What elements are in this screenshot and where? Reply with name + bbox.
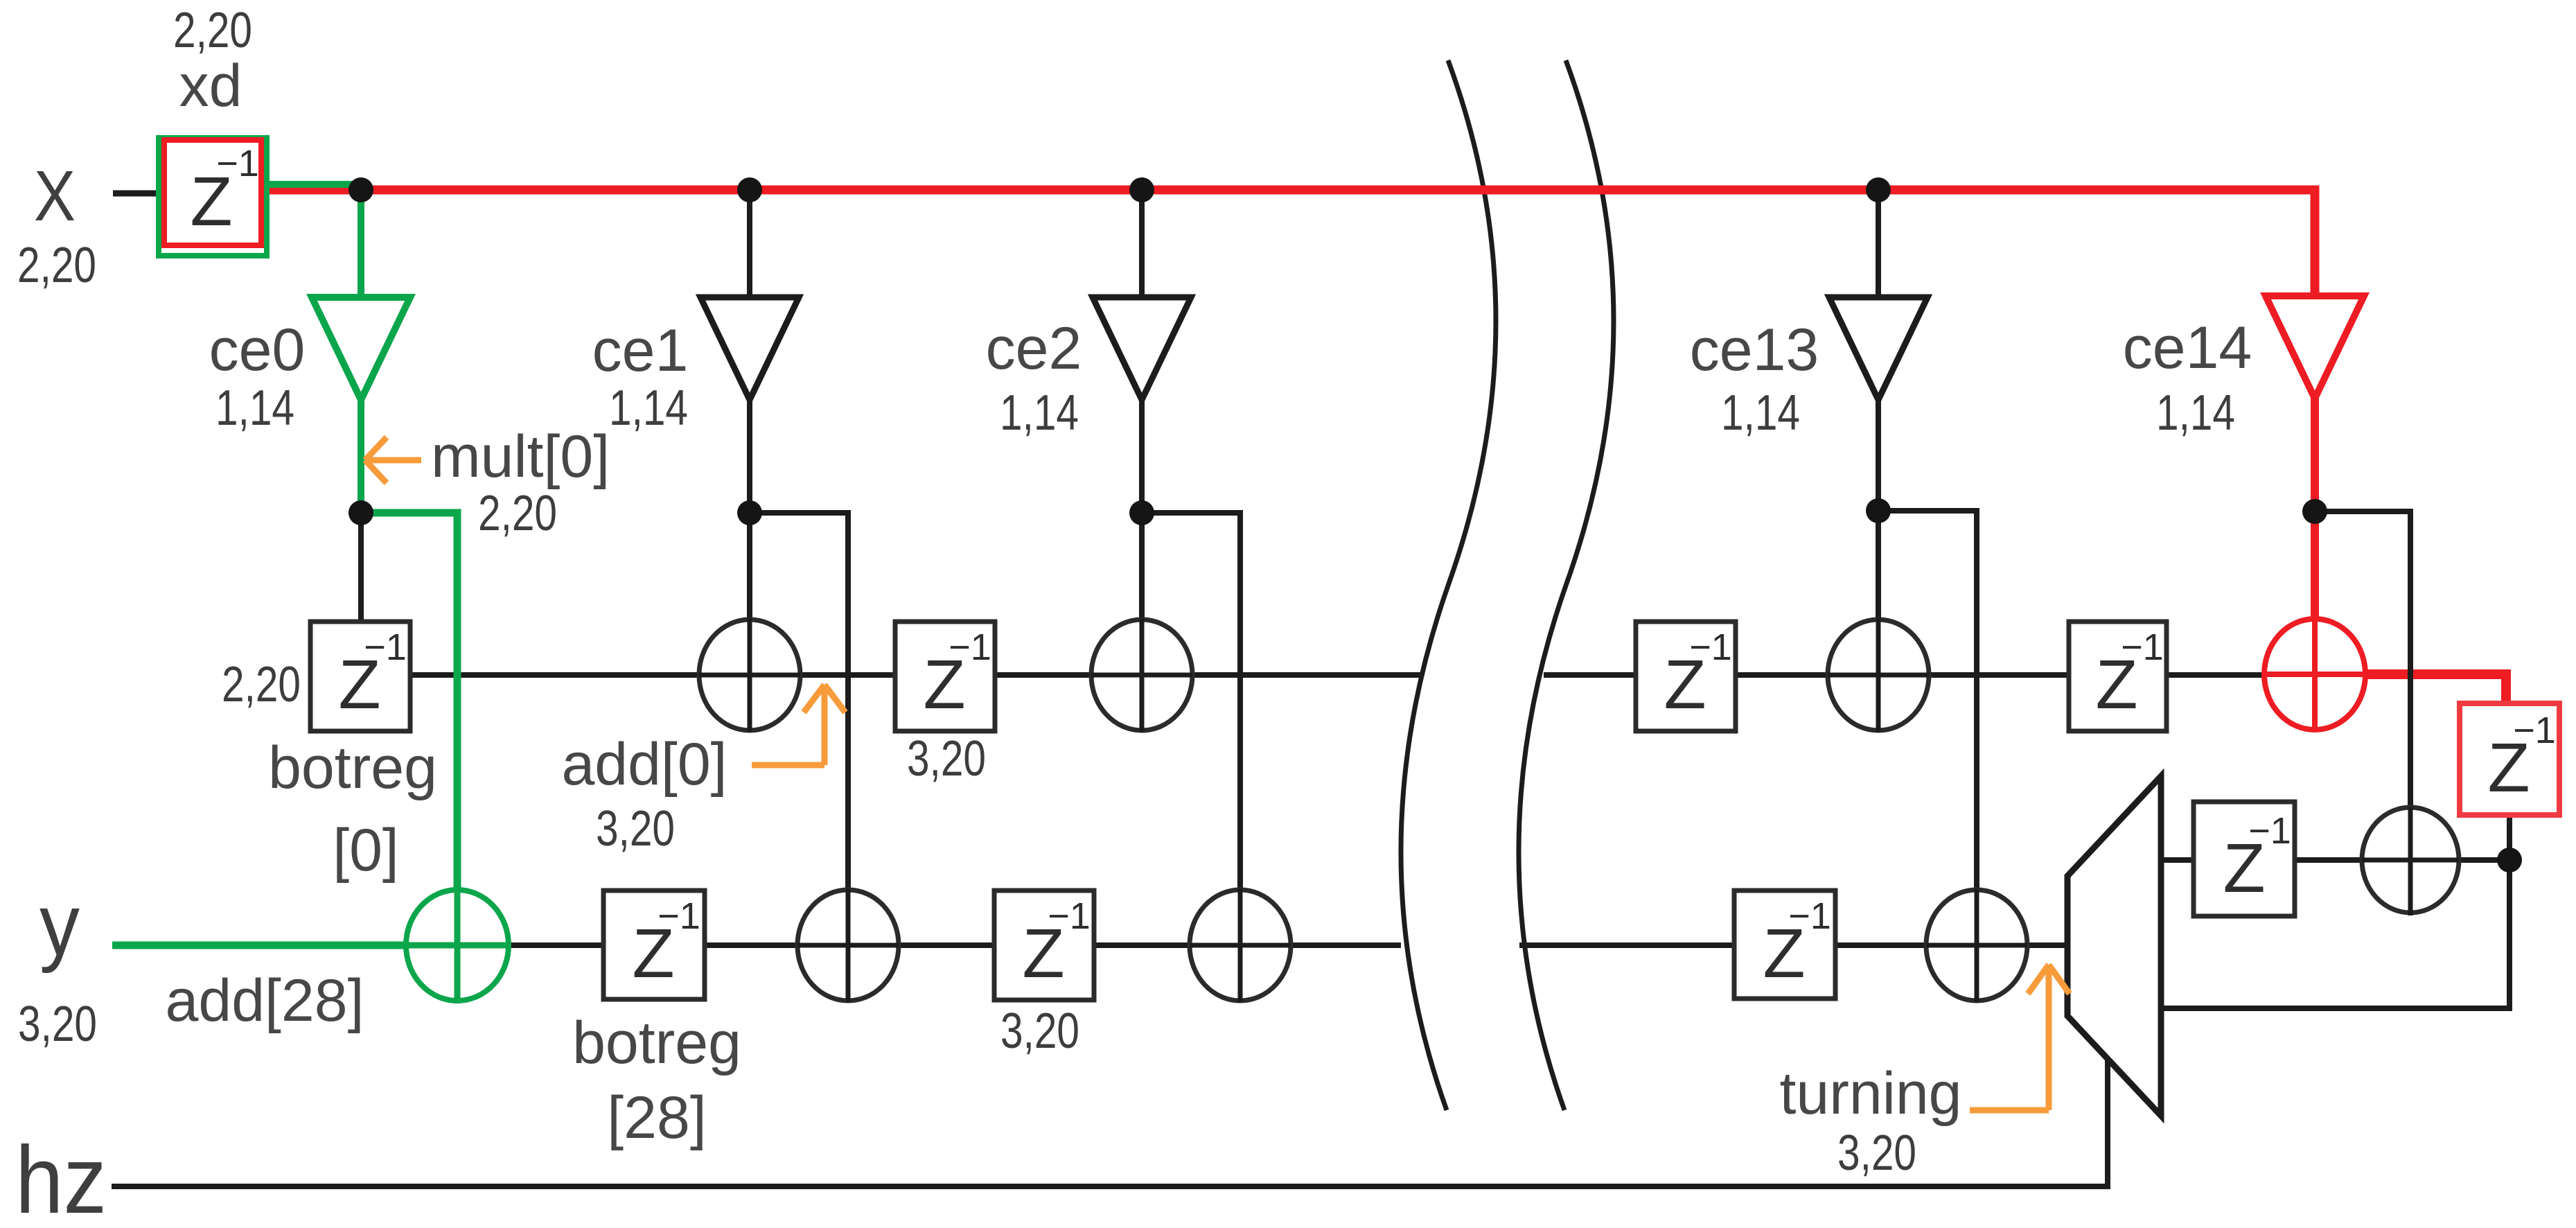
delay register botreg[28] <box>603 891 705 999</box>
delay register xd (red box) <box>164 140 261 245</box>
svg-text:2,20: 2,20 <box>222 657 301 712</box>
svg-text:botreg: botreg <box>268 735 437 801</box>
svg-text:−1: −1 <box>949 626 991 668</box>
adder bottom 3 <box>1926 890 2027 1001</box>
svg-text:ce2: ce2 <box>986 315 1082 382</box>
svg-text:−1: −1 <box>1788 895 1831 937</box>
wire subrow mux to node <box>2161 857 2509 863</box>
node ce2 split <box>1129 500 1154 525</box>
adder middle 3 (ce13) <box>1828 620 1929 730</box>
svg-text:2,20: 2,20 <box>17 238 96 293</box>
amplifier ce1 <box>700 297 799 400</box>
delay register output (red box) <box>2460 703 2559 815</box>
wire red bus X (top) <box>265 190 2315 296</box>
wire X input <box>113 191 164 197</box>
wire green xd output <box>265 181 361 188</box>
svg-text:−1: −1 <box>1689 626 1732 668</box>
svg-text:1,14: 1,14 <box>609 380 688 436</box>
adder add[28] (green) <box>406 890 509 1001</box>
node ce14 split <box>2302 499 2327 524</box>
wire drop ce2 from bus <box>1139 190 1145 298</box>
break mark wavy line 1 <box>1401 60 1496 1110</box>
wire middle row (botreg[0] to break) <box>410 672 1422 678</box>
wire middle row (break to red adder) <box>1544 672 2315 678</box>
wire ce1 apex to middle adder <box>747 399 752 726</box>
svg-text:3,20: 3,20 <box>596 801 675 857</box>
svg-text:1,14: 1,14 <box>215 380 294 436</box>
node xd output <box>349 177 373 202</box>
wire jog ce1 to bottom adder <box>750 513 848 997</box>
svg-text:mult[0]: mult[0] <box>431 423 610 490</box>
amplifier ce2 <box>1093 297 1191 400</box>
svg-text:−1: −1 <box>216 143 259 184</box>
delay register bottom middle <box>994 891 1094 1000</box>
wire jog ce13 to bottom adder <box>1878 511 1977 997</box>
svg-text:hz: hz <box>15 1127 107 1228</box>
adder bottom 1 <box>797 890 899 1001</box>
delay register middle 2 (after break) <box>1636 622 1736 731</box>
node ce1 split <box>737 500 762 525</box>
svg-text:add[28]: add[28] <box>166 967 364 1034</box>
svg-text:−1: −1 <box>2513 710 2556 751</box>
svg-text:−1: −1 <box>2248 810 2291 852</box>
annotation arrow add[0] <box>752 685 845 765</box>
svg-text:1,14: 1,14 <box>1000 385 1079 441</box>
wire drop ce1 from bus <box>747 190 752 298</box>
wire green node to ce0 <box>358 187 364 298</box>
wire hz output <box>112 1058 2108 1186</box>
wire drop ce13 from bus <box>1876 190 1881 298</box>
break mark wavy line 2 <box>1519 60 1614 1110</box>
adder subrow <box>2362 807 2459 913</box>
svg-text:add[0]: add[0] <box>561 731 727 798</box>
svg-text:1,14: 1,14 <box>1721 385 1800 441</box>
delay register botreg[0] <box>310 622 410 731</box>
delay register bottom right (after break) <box>1734 891 1835 999</box>
adder red (ce14) <box>2264 619 2365 730</box>
wire red ce14 apex to red adder <box>2311 398 2319 726</box>
svg-text:3,20: 3,20 <box>18 997 97 1052</box>
svg-text:ce14: ce14 <box>2123 315 2252 381</box>
node tap ce2 <box>1129 177 1154 202</box>
wire green ce0 apex to node B <box>358 399 364 516</box>
wire green jog mult path down to adder add28 <box>361 513 457 997</box>
node ce13 split <box>1866 498 1891 523</box>
svg-text:botreg: botreg <box>572 1010 741 1076</box>
svg-text:1,14: 1,14 <box>2156 385 2235 441</box>
wire jog ce14 to subrow adder <box>2315 511 2410 915</box>
node tap ce1 <box>737 177 762 202</box>
wire bottom row (break to mux) <box>1519 942 2067 948</box>
svg-text:3,20: 3,20 <box>907 731 986 787</box>
wire green y input <box>112 942 416 949</box>
delay register middle 1 <box>895 622 995 731</box>
svg-text:2,20: 2,20 <box>478 486 557 541</box>
svg-text:2,20: 2,20 <box>173 3 252 58</box>
wire thick red output to red register <box>2364 674 2506 708</box>
node tap ce13 <box>1866 177 1891 202</box>
node output register junction <box>2497 848 2522 872</box>
mux turning <box>2067 776 2161 1116</box>
delay register subrow <box>2194 802 2295 916</box>
svg-text:ce0: ce0 <box>209 317 306 383</box>
annotation arrow turning <box>1970 965 2070 1110</box>
annotation arrow mult[0] <box>365 437 421 483</box>
svg-text:[0]: [0] <box>333 817 399 884</box>
amplifier ce0 (green) <box>312 297 410 400</box>
svg-text:−1: −1 <box>658 895 700 937</box>
adder middle 2 <box>1091 620 1192 730</box>
adder add[0] middle 1 <box>699 620 800 730</box>
svg-text:ce1: ce1 <box>592 317 689 384</box>
wire ce2 apex to middle adder <box>1139 399 1145 726</box>
svg-text:−1: −1 <box>2121 626 2164 668</box>
svg-text:turning: turning <box>1780 1060 1962 1127</box>
svg-text:−1: −1 <box>364 626 407 668</box>
wire jog ce2 to bottom adder <box>1142 513 1240 997</box>
node B mult[0] <box>349 500 373 525</box>
svg-text:ce13: ce13 <box>1690 317 1819 383</box>
svg-text:[28]: [28] <box>607 1085 706 1151</box>
svg-text:−1: −1 <box>1048 895 1091 937</box>
wire bottom row (adder add28 to break) <box>509 942 1401 948</box>
svg-text:y: y <box>39 876 80 974</box>
svg-text:xd: xd <box>179 53 242 119</box>
amplifier ce13 <box>1829 297 1927 400</box>
svg-text:3,20: 3,20 <box>1837 1125 1916 1181</box>
adder bottom 2 <box>1190 890 1291 1001</box>
wire ce13 apex to middle adder <box>1876 399 1881 726</box>
wire feedback from red register down to mux <box>2161 815 2509 1008</box>
svg-text:3,20: 3,20 <box>1000 1003 1079 1059</box>
wire black from node B to botreg0 <box>358 513 364 622</box>
delay register middle 3 <box>2069 622 2167 731</box>
amplifier ce14 (red) <box>2266 296 2364 398</box>
svg-text:X: X <box>34 156 76 236</box>
delay register xd (green highlight box) <box>159 138 267 256</box>
